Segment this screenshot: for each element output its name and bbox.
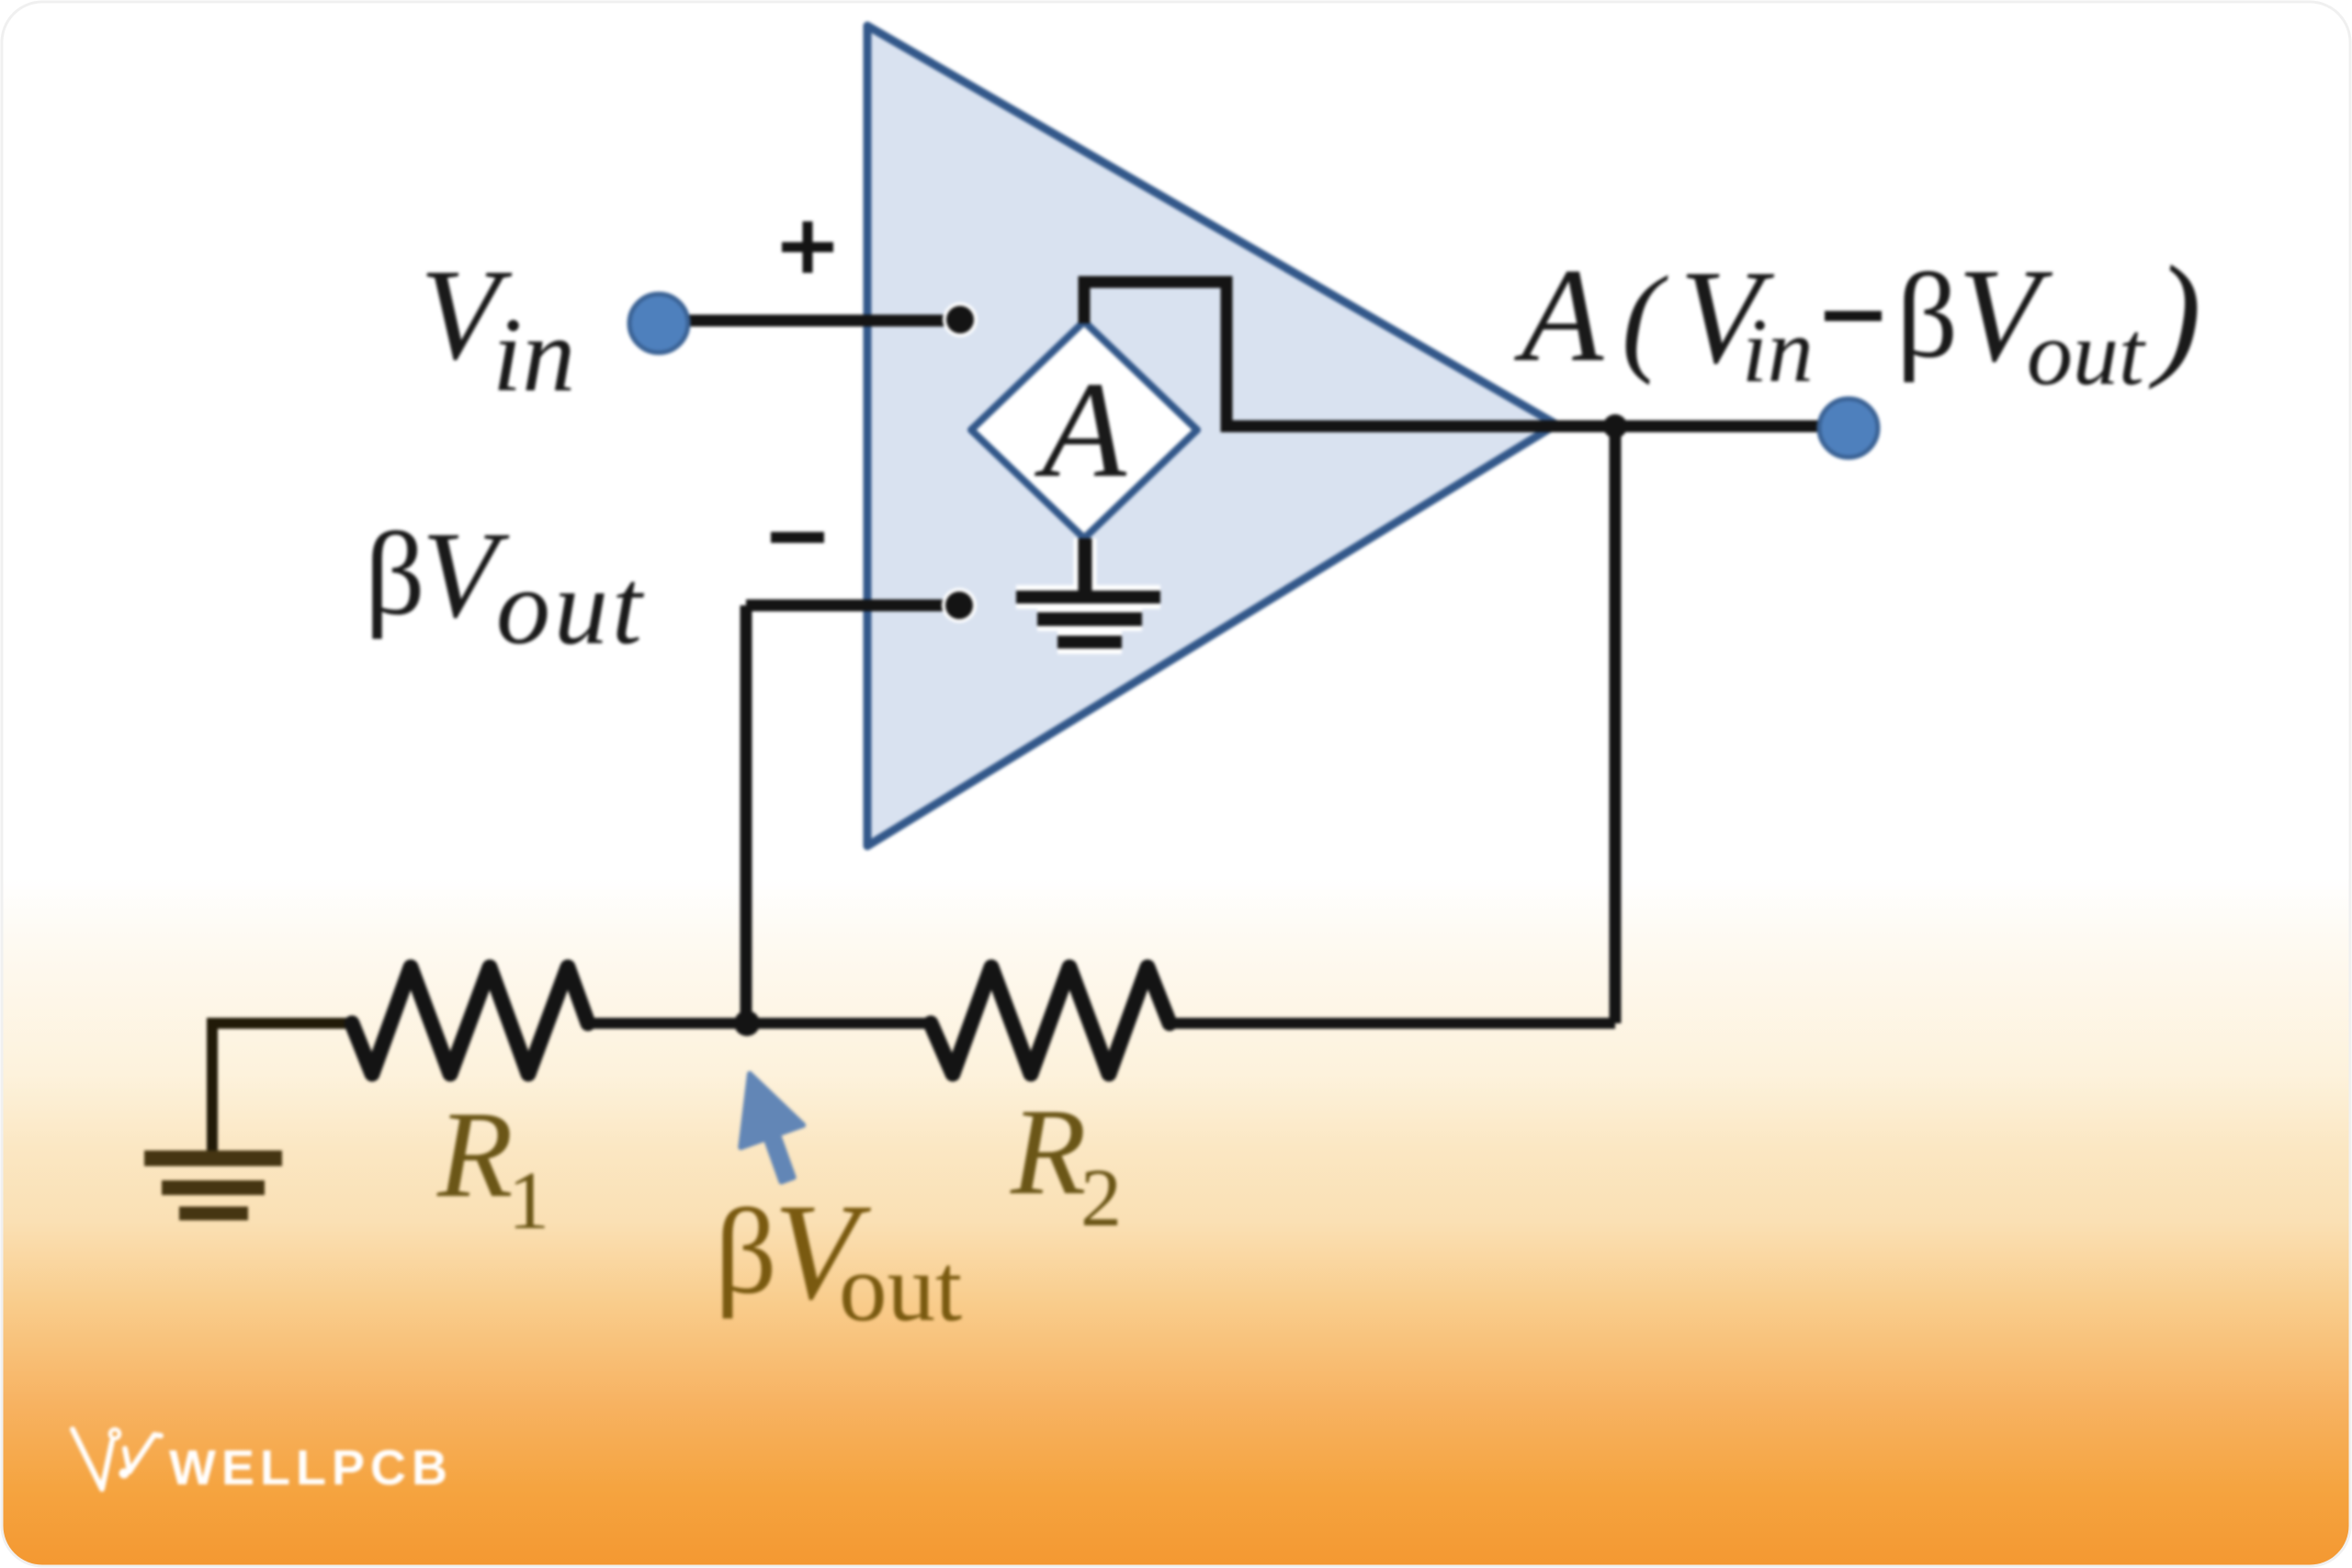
ground (inside op-amp) [1016, 591, 1160, 604]
terminal Vout (blue) [1819, 399, 1878, 457]
svg-text:R: R [1010, 1084, 1086, 1221]
svg-text:β: β [1896, 248, 1958, 383]
svg-text:out: out [839, 1234, 962, 1341]
wire: + input from Vin terminal to pin [687, 315, 960, 327]
dependent source U2 (diamond A) [971, 321, 1197, 538]
svg-text:1: 1 [508, 1156, 549, 1247]
svg-text:R: R [436, 1087, 513, 1224]
svg-text:out: out [496, 547, 646, 667]
arrow pointing to node betaVout [741, 1074, 803, 1181]
wire: bottom rail left lead (ground to R1) [212, 1023, 355, 1152]
resistor R2 [931, 967, 1170, 1074]
svg-text:β: β [365, 508, 425, 639]
node: output junction dot [1603, 414, 1627, 438]
svg-text:WELLPCB: WELLPCB [169, 1440, 453, 1495]
node: + input pin dot [943, 302, 978, 337]
wire: rail from R2 to output vertical [1167, 1018, 1615, 1029]
wire: - input from feedback to pin [746, 600, 959, 612]
svg-text:A: A [1514, 241, 1604, 389]
svg-text:(: ( [1622, 251, 1668, 386]
svg-text:in: in [1742, 299, 1814, 401]
wire: output vertical down to bottom rail [1610, 426, 1622, 1023]
node: - input pin dot [942, 588, 977, 623]
svg-text:in: in [492, 297, 575, 414]
ground (left, below R1) [144, 1151, 282, 1167]
label + polarity [782, 221, 833, 273]
resistor R1 [352, 967, 588, 1074]
svg-text:2: 2 [1080, 1153, 1122, 1244]
svg-text:A: A [1034, 354, 1127, 506]
wire: feedback vertical from - input down to node betaVout [741, 605, 752, 1023]
svg-text:β: β [715, 1183, 777, 1319]
logo WELLPCB [73, 1429, 161, 1489]
op-amp U1 (amplifier triangle) [867, 26, 1556, 846]
svg-text:): ) [2148, 238, 2201, 390]
label - polarity [771, 532, 824, 543]
svg-text:out: out [2027, 302, 2146, 404]
node: betaVout junction dot [734, 1010, 760, 1036]
wire: rail between R1 and R2 [585, 1018, 933, 1029]
terminal Vin (blue) [629, 294, 688, 353]
wire: ground stem of dependent source [1016, 597, 1160, 642]
wire: dependent source output to op-amp output [1084, 282, 1819, 426]
